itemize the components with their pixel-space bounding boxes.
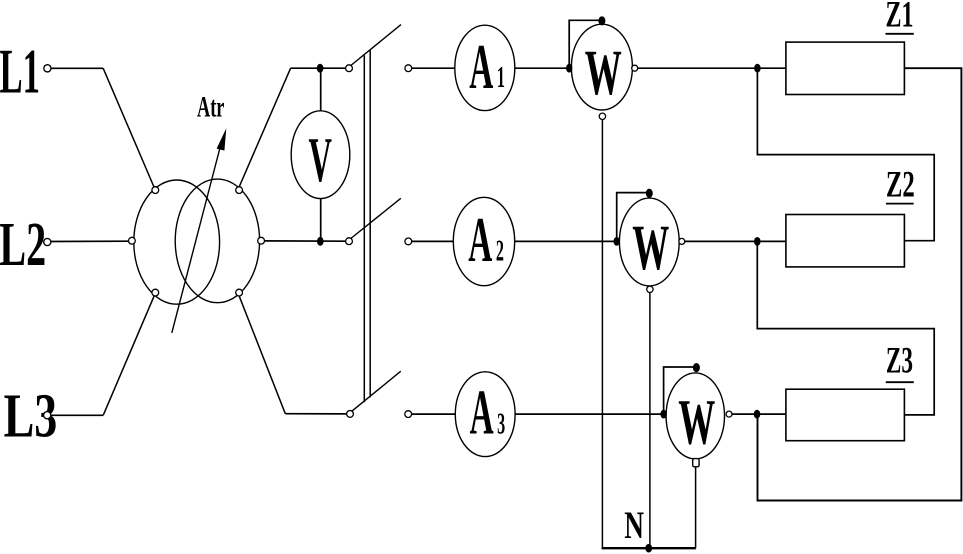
wire W2 voltage tap up <box>617 193 650 242</box>
wire A2 to W2 <box>515 240 617 242</box>
wire switch to A3 <box>412 413 456 415</box>
ammeter A2 <box>453 197 514 285</box>
svg-text:W: W <box>678 387 715 458</box>
autotransformer Atr winding left <box>134 180 220 304</box>
junction node W3 left <box>660 410 666 419</box>
voltmeter V <box>291 111 350 199</box>
terminal W1 right <box>632 65 638 71</box>
load Z2 <box>786 215 905 267</box>
wire phase2 transformer to switch <box>265 240 346 242</box>
terminal W2 right <box>679 238 685 244</box>
terminal L3 <box>44 412 51 419</box>
junction node W1 left <box>566 64 572 73</box>
junction node W2 left <box>614 237 620 246</box>
wire W1 voltage tap up <box>569 20 602 68</box>
label A2 <box>468 206 504 276</box>
wire L1 diagonal to transformer <box>103 68 154 187</box>
svg-text:W: W <box>632 213 669 284</box>
wire W3 to Z3 junction <box>732 413 786 415</box>
switch gang bar line1 <box>363 55 365 402</box>
junction node V bottom <box>317 237 324 246</box>
wire transformer UR diagonal up <box>239 68 291 187</box>
switch pole3 right contact <box>405 411 412 418</box>
wattmeter W2 <box>619 198 679 286</box>
wire W1 to Z1 junction <box>638 67 786 69</box>
junction node V top <box>317 64 324 73</box>
terminal W3 bottom <box>693 459 699 467</box>
terminal W3 right <box>726 411 732 417</box>
junction node N <box>645 544 652 553</box>
svg-text:1: 1 <box>497 61 505 95</box>
neutral bus wire N <box>602 547 696 549</box>
terminal L1 <box>44 65 51 72</box>
wattmeter W1 <box>571 24 632 110</box>
svg-text:N: N <box>624 504 644 547</box>
svg-text:L2: L2 <box>0 210 46 279</box>
svg-text:A: A <box>468 206 492 276</box>
svg-text:Atr: Atr <box>197 91 224 123</box>
junction node phase1 <box>754 64 761 73</box>
wire W3 voltage down to N <box>695 467 697 548</box>
wire node1 down to Z2 right chain <box>757 68 934 241</box>
svg-text:3: 3 <box>497 407 505 441</box>
switch pole2 left contact <box>346 238 353 245</box>
wire switch to A1 <box>412 67 455 69</box>
wire W1 voltage down to N <box>601 119 603 548</box>
switch pole1 blade <box>351 25 401 66</box>
svg-text:2: 2 <box>496 234 504 268</box>
terminal W1 bottom <box>599 113 605 119</box>
switch pole1 left contact <box>346 65 353 72</box>
transformer terminal upper-left <box>152 187 159 194</box>
wire A3 to W3 <box>515 413 664 415</box>
wire transformer LR diagonal down <box>239 296 285 414</box>
svg-text:A: A <box>469 33 493 103</box>
transformer terminal left-middle <box>129 237 136 244</box>
underline Z3 <box>886 381 914 383</box>
switch pole3 blade <box>352 371 401 411</box>
underline Z2 <box>886 203 914 205</box>
terminal L2 <box>44 238 51 245</box>
wire node2 down to Z3 right chain <box>757 241 934 415</box>
junction node phase2 <box>754 237 761 246</box>
wire W2 to Z2 junction <box>685 240 786 242</box>
wire W3 voltage tap up <box>664 367 697 414</box>
svg-text:Z3: Z3 <box>886 339 913 381</box>
wire Z1 right around to node3 <box>758 68 962 500</box>
wire L3 diagonal to transformer <box>103 296 154 416</box>
transformer terminal upper-right <box>236 187 243 194</box>
wire V bottom lead <box>320 199 322 242</box>
underline Z1 <box>886 33 914 35</box>
wire phase1 to switch <box>291 67 346 69</box>
svg-text:L1: L1 <box>0 37 40 106</box>
svg-text:W: W <box>585 38 622 109</box>
wire W2 voltage down to N <box>649 292 651 548</box>
wire phase3 to switch <box>285 413 346 415</box>
switch pole2 right contact <box>405 238 412 245</box>
svg-text:V: V <box>309 124 333 195</box>
junction dot W1 top <box>598 16 605 25</box>
transformer terminal lower-right <box>236 289 243 296</box>
svg-text:Z1: Z1 <box>886 0 914 35</box>
ammeter A3 <box>455 372 515 457</box>
arrowhead of Atr <box>217 128 227 150</box>
wire L1 horizontal <box>51 67 103 69</box>
wire L2 horizontal <box>51 240 129 242</box>
ammeter A1 <box>455 25 515 110</box>
wire V top lead <box>320 68 322 111</box>
switch pole3 left contact <box>347 411 354 418</box>
arrow shaft of Atr <box>172 142 222 333</box>
transformer terminal right-middle <box>258 237 265 244</box>
junction dot W2 top <box>646 189 653 198</box>
wire A1 to W1 <box>515 67 569 69</box>
wire L3 horizontal <box>51 414 103 416</box>
load Z3 <box>786 389 905 441</box>
switch pole2 blade <box>351 198 401 238</box>
autotransformer Atr winding right <box>175 179 259 303</box>
wire switch to A2 <box>412 240 454 242</box>
load Z1 <box>786 42 905 94</box>
switch gang bar line2 <box>369 51 371 398</box>
terminal W2 bottom <box>647 286 653 292</box>
transformer terminal lower-left <box>152 289 159 296</box>
label A1 <box>469 33 505 103</box>
junction node phase3 <box>754 410 761 419</box>
label A3 <box>470 378 506 448</box>
junction dot W3 top <box>693 363 700 372</box>
svg-text:Z2: Z2 <box>886 163 915 204</box>
switch pole1 right contact <box>405 65 412 72</box>
wattmeter W3 <box>666 373 724 459</box>
svg-text:A: A <box>470 378 494 448</box>
